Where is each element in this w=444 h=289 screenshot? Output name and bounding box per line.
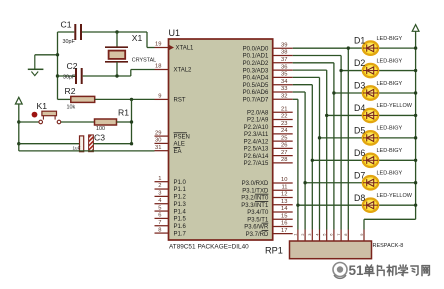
svg-text:38: 38 <box>281 50 287 56</box>
wire P0.2 to D3 / RP1 <box>293 63 362 230</box>
svg-text:U1: U1 <box>169 28 181 38</box>
svg-text:D3: D3 <box>354 81 365 91</box>
pin 21 (P2.0/A8) <box>247 106 293 116</box>
svg-text:D7: D7 <box>354 170 365 180</box>
pin 6 (P1.5) <box>155 213 187 223</box>
svg-text:C2: C2 <box>67 61 78 71</box>
svg-text:22: 22 <box>281 114 287 120</box>
svg-text:D1: D1 <box>354 36 365 46</box>
svg-text:R2: R2 <box>65 86 76 96</box>
capacitor C2 <box>58 68 131 84</box>
label X1 <box>132 33 143 43</box>
pin 2 (RP1) <box>300 230 305 242</box>
pin 6 (RP1) <box>329 230 334 242</box>
svg-text:RP1: RP1 <box>265 246 283 256</box>
svg-text:P1.0: P1.0 <box>174 180 187 186</box>
pin 12 (P3.2/INT0) <box>241 192 292 202</box>
wire P0.3 to D4 / RP1 <box>293 70 362 229</box>
svg-text:D6: D6 <box>354 148 365 158</box>
pin 13 (P3.3/INT1) <box>241 199 292 209</box>
svg-text:13: 13 <box>281 199 287 205</box>
label D4 <box>354 103 365 113</box>
pin 33 (P0.6/AD6) <box>243 86 293 96</box>
pin 2 (P1.1) <box>155 183 187 193</box>
node R2-RST junction <box>130 98 133 101</box>
label D1 <box>354 36 365 46</box>
label D6 <box>354 148 365 158</box>
svg-text:P2.2/A10: P2.2/A10 <box>244 125 269 131</box>
value RESPACK-8 <box>373 243 404 249</box>
node C3-RST junction <box>130 142 133 145</box>
resistor pack RP1 body <box>290 241 372 259</box>
pin 38 (P0.1/AD1) <box>243 50 293 60</box>
svg-text:36: 36 <box>281 64 287 70</box>
svg-text:P0.5/AD5: P0.5/AD5 <box>243 83 269 89</box>
value LED-YELLOW (D4) <box>377 103 413 109</box>
pin 32 (P0.7/AD7) <box>243 94 293 104</box>
svg-text:D2: D2 <box>354 58 365 68</box>
capacitor C1 <box>58 24 148 40</box>
capacitor C3 (electrolytic) <box>80 135 132 152</box>
svg-text:LED-BIGY: LED-BIGY <box>377 81 403 87</box>
label D7 <box>354 170 365 180</box>
pin 25 (P2.4/A12) <box>244 135 293 145</box>
pin 39 (P0.0/AD0) <box>243 42 293 52</box>
LED D1 <box>363 41 418 54</box>
svg-text:XTAL1: XTAL1 <box>176 46 195 52</box>
svg-text:P1.5: P1.5 <box>174 217 187 223</box>
pin 28 (P2.7/A15) <box>244 157 293 167</box>
wire VCC to EA <box>19 150 155 152</box>
pin 10 (P3.0/RXD) <box>242 177 293 187</box>
svg-text:30: 30 <box>155 138 161 144</box>
crystal X1 <box>105 32 128 76</box>
pin 16 (P3.6/WR) <box>244 221 292 231</box>
pin 19 (XTAL1) <box>155 42 195 52</box>
value 10k <box>67 104 76 110</box>
label U1 <box>169 28 181 38</box>
value 30pF (C1) <box>63 39 76 45</box>
wire P0.1 to D2 / RP1 <box>293 56 362 230</box>
svg-text:CRYSTAL: CRYSTAL <box>132 57 156 63</box>
LED D5 <box>363 131 418 144</box>
wire VCC rail right <box>364 31 416 229</box>
svg-text:P3.7/RD: P3.7/RD <box>246 232 269 238</box>
svg-text:ALE: ALE <box>174 142 185 148</box>
svg-text:PSEN: PSEN <box>174 134 190 140</box>
label D8 <box>354 193 365 203</box>
wire P0.0 to D1 / RP1 <box>293 46 362 229</box>
op: IC U1 AT89C51 body <box>169 39 273 240</box>
svg-text:LED-BIGY: LED-BIGY <box>377 58 403 64</box>
svg-text:D4: D4 <box>354 103 365 113</box>
svg-text:EA: EA <box>174 149 182 155</box>
svg-text:3: 3 <box>158 191 161 197</box>
svg-text:P3.0/RXD: P3.0/RXD <box>242 181 269 187</box>
pin 1 (P1.0) <box>155 176 187 186</box>
resistor R1 <box>61 119 132 125</box>
wire P0.7 to D8 / RP1 <box>293 99 362 229</box>
pin 18 (XTAL2) <box>155 64 193 74</box>
svg-text:21: 21 <box>281 106 287 112</box>
watermark logo <box>333 263 347 279</box>
label PACKAGE=DIL40 <box>198 244 250 251</box>
ground <box>28 55 44 76</box>
svg-text:P0.2/AD2: P0.2/AD2 <box>243 61 269 67</box>
svg-text:8: 8 <box>158 227 161 233</box>
pin 15 (P3.5/T1) <box>247 213 292 223</box>
svg-text:P2.7/A15: P2.7/A15 <box>244 161 269 167</box>
LED D6 <box>363 154 418 167</box>
value LED-BIGY (D7) <box>377 171 403 177</box>
svg-text:P2.1/A9: P2.1/A9 <box>247 118 269 124</box>
svg-text:16: 16 <box>281 221 287 227</box>
svg-text:P1.3: P1.3 <box>174 202 187 208</box>
svg-text:29: 29 <box>155 130 161 136</box>
wire P0.6 to D7 / RP1 <box>293 92 362 230</box>
svg-text:P1.6: P1.6 <box>174 224 187 230</box>
label R1 <box>118 107 129 117</box>
svg-text:30pF: 30pF <box>63 39 76 45</box>
LED D3 <box>363 86 418 99</box>
label K1 <box>37 101 48 111</box>
label D5 <box>354 125 365 135</box>
svg-text:P3.4/T0: P3.4/T0 <box>247 210 269 216</box>
svg-text:1uF: 1uF <box>73 146 81 151</box>
wire P0.4 to D5 / RP1 <box>293 77 362 229</box>
svg-text:23: 23 <box>281 121 287 127</box>
svg-text:9: 9 <box>158 94 161 100</box>
svg-text:P1.2: P1.2 <box>174 195 187 201</box>
svg-text:28: 28 <box>281 157 287 163</box>
svg-text:27: 27 <box>281 150 287 156</box>
svg-text:P3.6/WR: P3.6/WR <box>244 225 269 231</box>
svg-text:LED-BIGY: LED-BIGY <box>377 36 403 42</box>
svg-text:P2.6/A14: P2.6/A14 <box>244 154 269 160</box>
svg-text:P0.1/AD1: P0.1/AD1 <box>243 54 269 60</box>
svg-text:12: 12 <box>281 192 287 198</box>
svg-text:P1.4: P1.4 <box>174 209 187 215</box>
pin 4 (RP1) <box>314 230 319 242</box>
svg-text:32: 32 <box>281 94 287 100</box>
value LED-BIGY (D3) <box>377 81 403 87</box>
svg-text:R1: R1 <box>118 107 129 117</box>
svg-text:D8: D8 <box>354 193 365 203</box>
value LED-BIGY (D5) <box>377 126 403 132</box>
svg-text:31: 31 <box>155 145 161 151</box>
svg-text:P0.3/AD3: P0.3/AD3 <box>243 68 269 74</box>
pin 35 (P0.4/AD4) <box>243 72 293 82</box>
pin 5 (P1.4) <box>155 205 187 215</box>
svg-text:26: 26 <box>281 143 287 149</box>
pin 14 (P3.4/T0) <box>247 206 292 216</box>
value 1uF <box>73 146 81 151</box>
svg-text:11: 11 <box>281 184 287 190</box>
pin 27 (P2.6/A14) <box>244 150 293 160</box>
label C3 <box>94 133 105 143</box>
svg-text:LED-BIGY: LED-BIGY <box>377 126 403 132</box>
svg-text:100: 100 <box>96 126 105 132</box>
svg-text:51: 51 <box>349 263 365 278</box>
wire ground vertical (C1-C2-R2) <box>56 32 59 99</box>
svg-text:18: 18 <box>155 64 161 70</box>
pin 8 (RP1) <box>343 230 348 242</box>
svg-text:39: 39 <box>281 42 287 48</box>
wire C2 to XTAL2 <box>131 70 155 77</box>
value 100 <box>96 126 105 132</box>
svg-text:C1: C1 <box>61 20 72 30</box>
svg-text:P0.0/AD0: P0.0/AD0 <box>243 46 269 52</box>
svg-text:7: 7 <box>158 220 161 226</box>
svg-text:25: 25 <box>281 135 287 141</box>
svg-text:P1.1: P1.1 <box>174 187 187 193</box>
svg-text:LED-BIGY: LED-BIGY <box>377 171 403 177</box>
svg-text:15: 15 <box>281 213 287 219</box>
svg-text:10k: 10k <box>67 104 76 110</box>
svg-text:LED-YELLOW: LED-YELLOW <box>377 193 413 199</box>
wire VCC to C3 <box>17 142 79 145</box>
pin 3 (RP1) <box>307 230 312 242</box>
svg-text:P2.5/A13: P2.5/A13 <box>244 147 269 153</box>
svg-text:AT89C51: AT89C51 <box>169 244 196 251</box>
svg-text:P2.0/A8: P2.0/A8 <box>247 110 269 116</box>
svg-text:24: 24 <box>281 128 288 134</box>
pin 37 (P0.2/AD2) <box>243 57 293 67</box>
svg-text:P0.7/AD7: P0.7/AD7 <box>243 98 269 104</box>
pin 7 (RP1) <box>336 230 341 242</box>
LED D4 <box>363 109 418 122</box>
svg-text:35: 35 <box>281 72 287 78</box>
label D3 <box>354 81 365 91</box>
pin 34 (P0.5/AD5) <box>243 79 293 89</box>
svg-text:X1: X1 <box>132 33 143 43</box>
pin 11 (P3.1/TXD) <box>242 184 292 194</box>
label C1 <box>61 20 72 30</box>
svg-text:P0.4/AD4: P0.4/AD4 <box>243 76 269 82</box>
svg-text:RST: RST <box>174 98 186 104</box>
svg-text:33: 33 <box>281 86 287 92</box>
label AT89C51 <box>169 244 196 251</box>
svg-text:1: 1 <box>158 176 161 182</box>
svg-text:2: 2 <box>158 183 161 189</box>
pin 29 (PSEN) <box>155 130 190 140</box>
LED D8 <box>363 198 418 211</box>
pin 8 (P1.7) <box>155 227 187 237</box>
value LED-BIGY (D1) <box>377 36 403 42</box>
pin 26 (P2.5/A13) <box>244 143 293 153</box>
label R2 <box>65 86 76 96</box>
wire VCC left vertical <box>18 104 20 151</box>
pin 30 (ALE) <box>155 138 185 148</box>
button K1 <box>32 111 61 124</box>
svg-text:34: 34 <box>281 79 288 85</box>
svg-text:6: 6 <box>158 213 161 219</box>
value LED-BIGY (D2) <box>377 58 403 64</box>
svg-text:10: 10 <box>281 177 287 183</box>
power symbol VCC (left arrow) <box>15 97 22 104</box>
pin 36 (P0.3/AD3) <box>243 64 293 74</box>
power symbol VCC (right arrow) <box>412 25 419 32</box>
value CRYSTAL <box>132 57 156 63</box>
svg-text:LED-BIGY: LED-BIGY <box>377 148 403 154</box>
node C2-X1 junction <box>115 74 118 77</box>
svg-text:P2.3/A11: P2.3/A11 <box>244 132 269 138</box>
wire VCC to K1 <box>17 120 39 123</box>
pin 9 (RST) <box>155 94 186 104</box>
wire RST net vertical <box>131 99 133 143</box>
pin 22 (P2.1/A9) <box>247 114 293 124</box>
svg-text:D5: D5 <box>354 125 365 135</box>
resistor R2 <box>58 96 155 102</box>
value LED-YELLOW (D8) <box>377 193 413 199</box>
svg-text:37: 37 <box>281 57 287 63</box>
value 30pF (C2) <box>63 75 76 81</box>
pin 31 (EA) <box>155 145 182 155</box>
node R1-RST junction <box>130 120 133 123</box>
wire ground stem to C1/C2/R2 node <box>35 54 58 56</box>
svg-text:XTAL2: XTAL2 <box>174 68 193 74</box>
svg-text:14: 14 <box>281 206 288 212</box>
svg-text:P3.5/T1: P3.5/T1 <box>247 217 269 223</box>
svg-text:19: 19 <box>155 42 161 48</box>
pin 24 (P2.3/A11) <box>244 128 293 138</box>
svg-text:P3.2/INT0: P3.2/INT0 <box>241 196 269 202</box>
svg-text:K1: K1 <box>37 101 48 111</box>
wire P0.5 to D6 / RP1 <box>293 85 362 230</box>
svg-text:P1.7: P1.7 <box>174 231 187 237</box>
svg-text:17: 17 <box>281 228 287 234</box>
svg-text:C3: C3 <box>94 133 105 143</box>
pin 23 (P2.2/A10) <box>244 121 293 131</box>
label C2 <box>67 61 78 71</box>
svg-text:P3.3/INT1: P3.3/INT1 <box>241 203 269 209</box>
wire C1 to XTAL1 <box>147 32 155 48</box>
label D2 <box>354 58 365 68</box>
pin 4 (P1.3) <box>155 198 187 208</box>
pin 9 (RP1 common) <box>359 230 364 242</box>
pin 3 (P1.2) <box>155 191 187 201</box>
node C1-X1 junction <box>115 30 118 33</box>
LED D2 <box>363 64 418 77</box>
svg-text:PACKAGE=DIL40: PACKAGE=DIL40 <box>198 244 250 251</box>
svg-text:P2.4/A12: P2.4/A12 <box>244 139 269 145</box>
svg-text:30pF: 30pF <box>63 75 76 81</box>
pin 5 (RP1) <box>322 230 327 242</box>
label RP1 <box>265 246 283 256</box>
svg-text:P0.6/AD6: P0.6/AD6 <box>243 90 269 96</box>
pin 7 (P1.6) <box>155 220 187 230</box>
pin 1 (RP1) <box>293 230 298 242</box>
svg-text:LED-YELLOW: LED-YELLOW <box>377 103 413 109</box>
watermark text 51danpianji <box>349 263 430 278</box>
svg-text:RESPACK-8: RESPACK-8 <box>373 243 404 249</box>
svg-text:5: 5 <box>158 205 161 211</box>
LED D7 <box>363 176 418 189</box>
svg-text:P3.1/TXD: P3.1/TXD <box>242 188 269 194</box>
value LED-BIGY (D6) <box>377 148 403 154</box>
pin 17 (P3.7/RD) <box>246 228 293 238</box>
